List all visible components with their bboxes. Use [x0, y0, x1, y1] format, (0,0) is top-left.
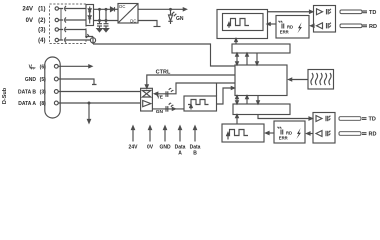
- svg-text:(3): (3): [40, 90, 46, 96]
- svg-text:TD: TD: [369, 10, 376, 16]
- svg-text:ERR: ERR: [280, 29, 289, 34]
- svg-text:(8): (8): [40, 101, 46, 107]
- svg-text:0V: 0V: [147, 145, 154, 151]
- svg-text:GN: GN: [156, 109, 164, 115]
- svg-text:TD: TD: [369, 117, 376, 123]
- svg-text:(1): (1): [38, 7, 45, 13]
- svg-text:(3): (3): [38, 28, 45, 34]
- svg-text:(4): (4): [38, 38, 45, 44]
- svg-text:PP: PP: [31, 66, 36, 70]
- svg-text:B: B: [193, 150, 197, 156]
- svg-text:DATA B: DATA B: [18, 90, 36, 96]
- svg-text:DATA A: DATA A: [18, 101, 36, 107]
- svg-text:GND: GND: [159, 145, 171, 151]
- svg-text:RD: RD: [369, 132, 377, 138]
- svg-text:D-Sub: D-Sub: [2, 87, 8, 104]
- svg-text:A: A: [178, 150, 182, 156]
- svg-text:0V: 0V: [26, 18, 33, 24]
- svg-text:GN: GN: [176, 16, 184, 22]
- svg-text:CTRL: CTRL: [156, 70, 171, 76]
- svg-text:DC: DC: [119, 4, 125, 9]
- svg-text:ERR: ERR: [279, 136, 288, 141]
- svg-text:(2): (2): [38, 18, 45, 24]
- svg-text:DC: DC: [130, 19, 136, 24]
- svg-text:(5): (5): [40, 77, 46, 83]
- svg-text:YE: YE: [157, 95, 164, 101]
- svg-text:RD: RD: [369, 24, 377, 30]
- svg-text:24V: 24V: [129, 145, 139, 151]
- svg-text:(6): (6): [40, 64, 46, 70]
- svg-text:GND: GND: [25, 77, 37, 83]
- svg-text:24V: 24V: [22, 7, 33, 13]
